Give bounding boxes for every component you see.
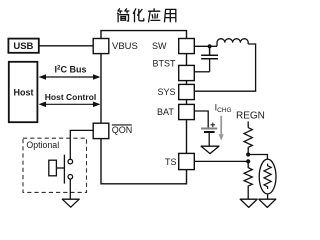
pushbutton S1 [49,155,73,184]
resistor R1 [244,128,252,155]
ground under battery [201,146,219,153]
IC U1 body outline [101,31,187,184]
svg-text:QON: QON [112,125,133,135]
svg-text:SYS: SYS [158,87,176,97]
wire USB to VBUS [39,45,93,47]
pin BTST square [179,65,195,80]
battery BT1 [201,128,217,130]
wire thermistor to ground [267,194,269,199]
应 [149,9,160,22]
capacitor C_BTST [201,46,218,72]
Host Control double arrow [39,102,101,108]
optional dashed box [23,138,87,192]
ground under switch [62,199,79,207]
wire node to thermistor [248,155,267,160]
resistor R2 [244,161,252,199]
wire cap to BTST [194,71,209,73]
pin SW square [179,39,195,54]
用 [165,9,176,21]
svg-text:Host: Host [14,88,34,98]
ground under thermistor [259,199,276,207]
inductor L1 [217,39,248,47]
化 [133,9,143,22]
battery plus sign [211,123,216,128]
thermistor RT1 [259,159,276,194]
node dot TS [246,159,250,163]
I2C Bus double arrow [39,74,101,80]
ICHG gray arrow [219,116,224,141]
wire SW to node [194,45,217,47]
svg-text:USB: USB [13,41,33,52]
wire BAT to battery [194,111,208,128]
svg-text:VBUS: VBUS [112,41,138,52]
wire inductor to SYS [194,44,255,91]
node dot R1/thermistor branch [246,152,250,156]
USB box [8,39,38,53]
svg-text:SW: SW [152,41,167,51]
node dot at SW [208,44,212,48]
svg-text:Host Control: Host Control [45,92,96,102]
pin TS square [179,153,195,169]
ground under R2 [240,199,257,207]
svg-text:BAT: BAT [157,107,174,117]
pin VBUS square [93,39,109,54]
Host box [9,62,38,122]
pin BAT square [179,104,195,119]
svg-text:Optional: Optional [26,140,59,150]
简 [118,9,129,22]
title 简化应用 (drawn strokes) [118,9,176,22]
wire switch to ground [69,179,71,199]
pin SYS square [179,84,195,99]
wire battery to ground [208,132,210,146]
svg-text:TS: TS [165,157,177,167]
wire QON to switch [70,130,93,159]
wire TS to node [194,160,248,162]
pin QON square [93,123,109,138]
wire REGN to resistor [247,122,249,128]
svg-text:REGN: REGN [236,110,265,121]
svg-text:BTST: BTST [153,58,177,68]
